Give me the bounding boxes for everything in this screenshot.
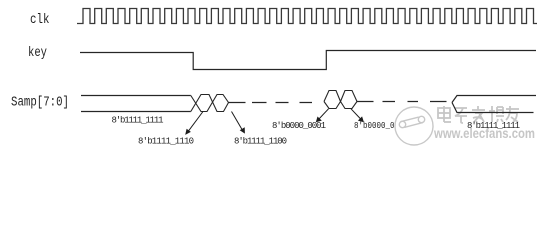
dashed idle 2 (383, 101, 447, 103)
bus segment 1 top rail (81, 95, 191, 97)
svg-text:8'b1111_1111: 8'b1111_1111 (112, 116, 164, 126)
right bus split bottom (452, 103, 534, 113)
watermark logo circle (395, 107, 433, 145)
right bus split top (452, 96, 536, 103)
arrow to 8'b1111_1110 (185, 109, 364, 135)
svg-text:clk: clk (30, 12, 50, 28)
value labels (112, 116, 521, 147)
dashed idle 1 (252, 102, 312, 104)
transition pair 1 hexagons (191, 95, 229, 112)
transition pair 2 hexagons (324, 91, 357, 102)
key waveform (80, 51, 536, 70)
watermark chinese glyphs (438, 106, 519, 123)
svg-text:8'b1111_1111: 8'b1111_1111 (467, 121, 520, 131)
tail line 1 (229, 102, 246, 104)
bus segment 1 bottom rail (81, 111, 191, 113)
clk waveform (77, 9, 537, 24)
svg-text:8'b1111_1100: 8'b1111_1100 (234, 137, 287, 147)
tail line 2 (357, 101, 374, 103)
svg-text:8'b1111_1110: 8'b1111_1110 (138, 137, 194, 147)
svg-text:Samp[7:0]: Samp[7:0] (11, 95, 69, 111)
svg-text:8'b0000_0001: 8'b0000_0001 (272, 121, 326, 131)
svg-text:key: key (28, 45, 47, 61)
